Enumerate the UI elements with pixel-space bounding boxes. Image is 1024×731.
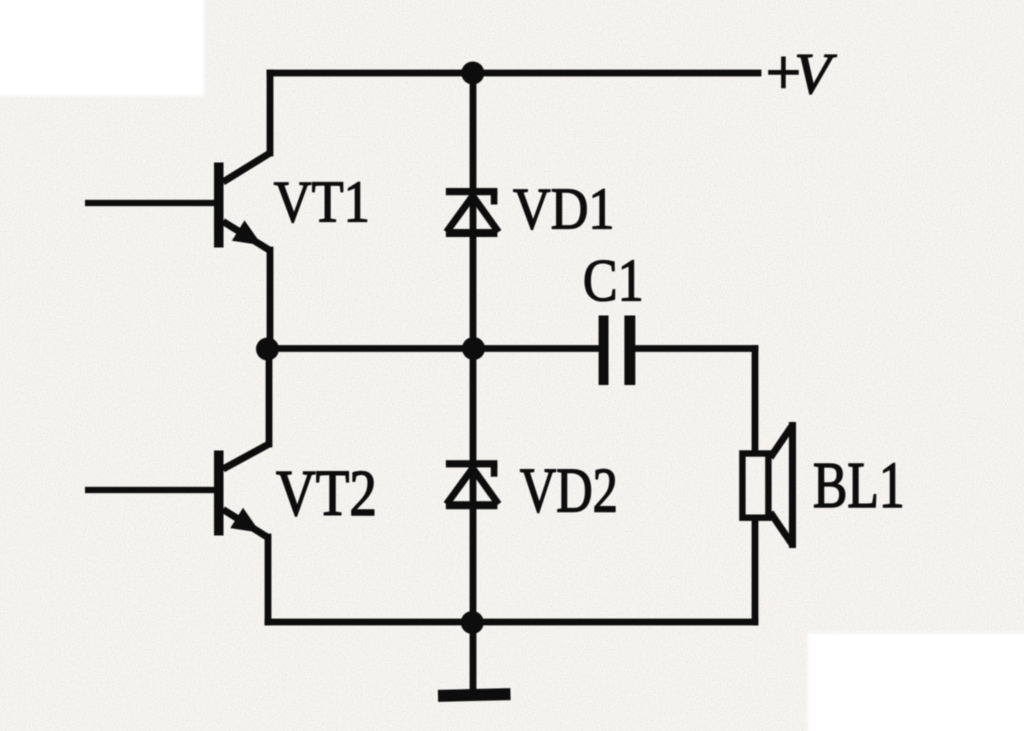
svg-text:C1: C1: [583, 248, 644, 315]
transistor VT1: [85, 153, 270, 251]
label VT2: [276, 458, 377, 531]
ground: [438, 688, 511, 702]
label +V: [766, 36, 837, 108]
node junction middle-left: [256, 338, 279, 361]
wire ground stub: [470, 622, 477, 691]
svg-text:V: V: [794, 42, 837, 106]
node junction top: [461, 62, 484, 85]
wire speaker branch lower: [752, 519, 759, 622]
svg-text:BL1: BL1: [813, 448, 905, 521]
wire VT2 collector vertical: [266, 349, 273, 445]
wire middle rail right: [635, 345, 755, 352]
transistor VT2: [85, 444, 269, 538]
wire VT1 collector vertical: [267, 73, 274, 153]
label VT1: [274, 169, 370, 235]
speaker BL1: [742, 422, 796, 548]
label BL1: [813, 448, 905, 521]
wire VD1 branch: [470, 73, 477, 349]
svg-text:VT2: VT2: [276, 458, 377, 531]
node junction middle-center: [462, 337, 485, 360]
wire bottom rail: [268, 619, 755, 626]
label C1: [583, 248, 644, 315]
wire top rail to +V: [270, 70, 758, 77]
label VD1: [513, 176, 614, 242]
diode VD2: [446, 460, 499, 509]
node junction bottom: [461, 611, 484, 634]
label VD2: [520, 456, 618, 526]
wire VD2 branch: [470, 349, 477, 623]
wire VT1 emitter vertical: [267, 250, 274, 352]
wire speaker branch upper: [752, 349, 759, 453]
capacitor C1: [599, 316, 636, 386]
diode VD1: [446, 188, 499, 237]
svg-text:VT1: VT1: [274, 169, 370, 235]
wire VT2 emitter vertical: [265, 537, 272, 622]
svg-text:VD2: VD2: [520, 456, 618, 526]
wire middle rail left: [267, 345, 599, 352]
svg-text:VD1: VD1: [513, 176, 614, 242]
